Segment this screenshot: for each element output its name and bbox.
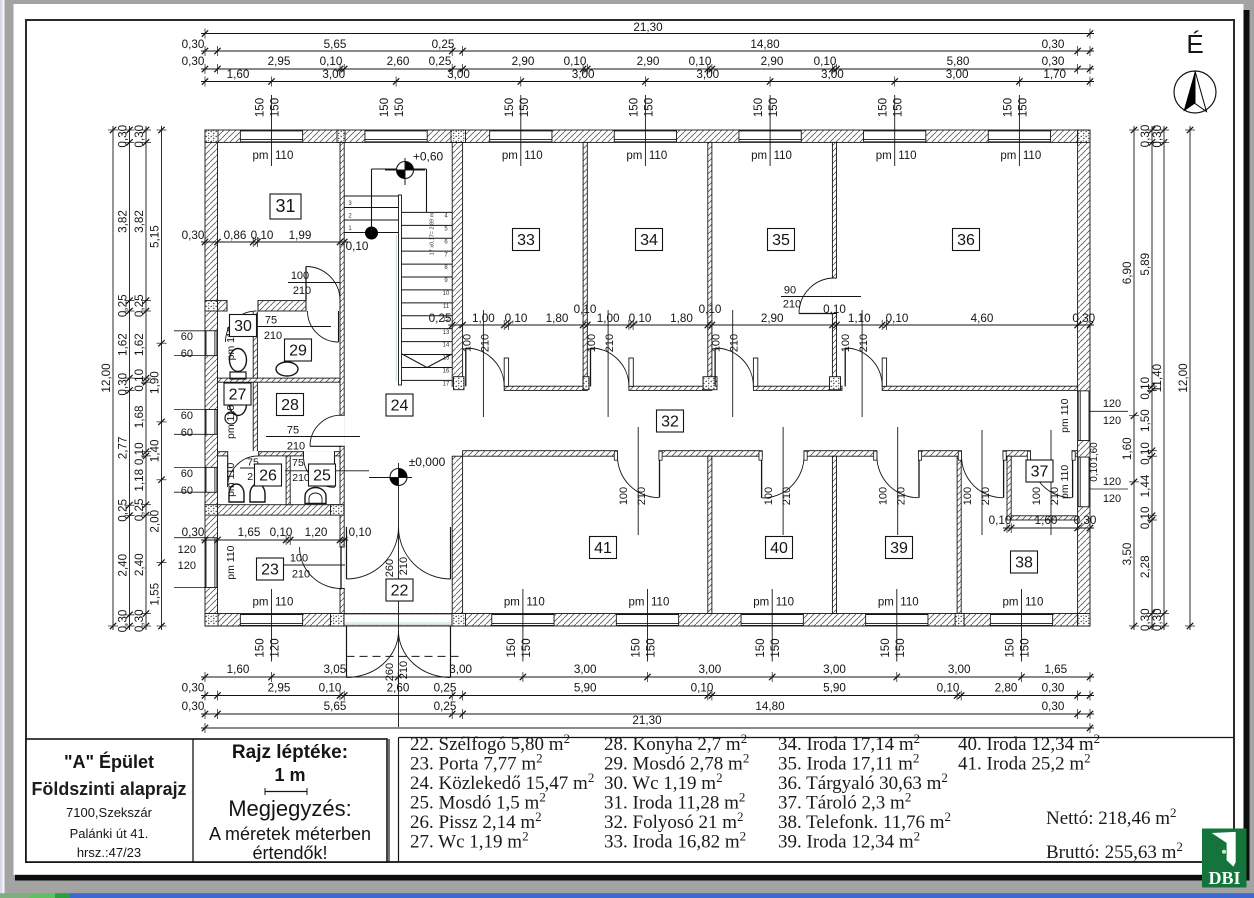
wall 33/34 bbox=[583, 142, 587, 386]
svg-text:110: 110 bbox=[651, 597, 669, 609]
svg-text:210: 210 bbox=[781, 487, 793, 505]
svg-text:150: 150 bbox=[768, 98, 780, 117]
svg-text:12,00: 12,00 bbox=[1177, 363, 1190, 393]
svg-text:110: 110 bbox=[776, 597, 794, 609]
svg-text:1,65: 1,65 bbox=[238, 526, 261, 539]
svg-text:1,50: 1,50 bbox=[1139, 409, 1152, 432]
svg-text:0,10: 0,10 bbox=[937, 682, 960, 695]
svg-text:1,00: 1,00 bbox=[597, 312, 620, 325]
svg-text:0,30: 0,30 bbox=[1151, 608, 1164, 631]
svg-text:32. Folyosó 21 m2: 32. Folyosó 21 m2 bbox=[604, 809, 744, 833]
svg-text:24: 24 bbox=[391, 398, 409, 415]
door witness lines upper rooms bbox=[482, 310, 484, 417]
svg-text:100: 100 bbox=[461, 334, 473, 352]
window top wall bbox=[365, 131, 427, 142]
door room 30 bbox=[226, 311, 257, 342]
svg-text:3,00: 3,00 bbox=[699, 663, 722, 676]
svg-text:0,10: 0,10 bbox=[564, 55, 587, 68]
dim bottom row4 total bbox=[201, 714, 1094, 733]
120/120 labels room 23 window bbox=[174, 538, 206, 588]
svg-text:40. Iroda 12,34 m2: 40. Iroda 12,34 m2 bbox=[958, 731, 1100, 755]
svg-text:25: 25 bbox=[313, 468, 331, 485]
svg-text:34: 34 bbox=[640, 232, 658, 249]
svg-text:pm 110: pm 110 bbox=[225, 545, 237, 579]
window top wall bbox=[739, 131, 801, 142]
svg-text:100: 100 bbox=[878, 487, 890, 505]
svg-text:210: 210 bbox=[292, 569, 310, 581]
svg-text:11: 11 bbox=[443, 304, 450, 310]
page shadow bottom bbox=[15, 875, 1250, 881]
door room 31 bbox=[306, 267, 340, 301]
svg-text:0,10: 0,10 bbox=[320, 55, 343, 68]
pm110 labels top rooms bbox=[253, 95, 294, 166]
svg-text:31. Iroda 11,28 m2: 31. Iroda 11,28 m2 bbox=[604, 790, 745, 814]
dim row room 23 bbox=[182, 526, 372, 545]
svg-text:75: 75 bbox=[265, 315, 277, 327]
window top wall bbox=[490, 131, 552, 142]
basin room 25 bbox=[305, 488, 326, 504]
svg-text:150: 150 bbox=[1005, 638, 1017, 657]
svg-text:3,00: 3,00 bbox=[696, 68, 719, 81]
svg-text:33: 33 bbox=[517, 232, 535, 249]
door room 23 bbox=[300, 547, 342, 589]
double door entrance outer bbox=[347, 626, 451, 678]
svg-text:5,80: 5,80 bbox=[947, 55, 970, 68]
svg-text:120: 120 bbox=[1103, 493, 1121, 505]
svg-text:3,00: 3,00 bbox=[447, 68, 470, 81]
svg-text:1,99: 1,99 bbox=[289, 229, 312, 242]
svg-text:120: 120 bbox=[178, 544, 196, 556]
svg-text:1,65: 1,65 bbox=[1044, 663, 1067, 676]
left scrollbar strips bbox=[0, 0, 3, 898]
svg-text:32: 32 bbox=[661, 414, 679, 431]
scale bar bbox=[265, 788, 307, 795]
svg-text:150: 150 bbox=[753, 98, 765, 117]
svg-text:2,90: 2,90 bbox=[512, 55, 535, 68]
dim right col2 bbox=[1139, 124, 1157, 631]
svg-text:150: 150 bbox=[895, 638, 907, 657]
svg-text:1,62: 1,62 bbox=[133, 333, 146, 356]
svg-text:260: 260 bbox=[384, 559, 396, 577]
svg-text:"A" Épület: "A" Épület bbox=[64, 751, 154, 772]
svg-text:28: 28 bbox=[281, 397, 299, 414]
dim row rooms 33-36 bbox=[429, 303, 1096, 330]
svg-text:60: 60 bbox=[181, 427, 193, 439]
stair left flight steps 1-3 bbox=[344, 207, 398, 209]
60/60 labels left wall windows bbox=[174, 331, 206, 360]
svg-text:150: 150 bbox=[770, 638, 782, 657]
DBI logo bbox=[1202, 829, 1247, 889]
svg-text:0,30: 0,30 bbox=[182, 38, 205, 51]
svg-text:150: 150 bbox=[643, 98, 655, 117]
svg-text:210: 210 bbox=[896, 487, 908, 505]
svg-text:10: 10 bbox=[443, 291, 450, 297]
svg-text:pm: pm bbox=[878, 597, 894, 609]
svg-text:0,10: 0,10 bbox=[349, 526, 372, 539]
svg-text:150: 150 bbox=[504, 98, 516, 117]
svg-text:210: 210 bbox=[729, 334, 741, 352]
column top-left corner bbox=[205, 130, 218, 142]
svg-text:35: 35 bbox=[772, 232, 790, 249]
svg-text:1,60: 1,60 bbox=[1121, 437, 1134, 460]
svg-text:2,40: 2,40 bbox=[133, 553, 146, 576]
door room 38 bbox=[958, 451, 1006, 498]
stair walking line bbox=[365, 227, 378, 240]
150/150 labels top bbox=[255, 98, 282, 117]
svg-text:39. Iroda 12,34 m2: 39. Iroda 12,34 m2 bbox=[778, 829, 920, 853]
svg-text:0,25: 0,25 bbox=[432, 38, 455, 51]
svg-text:pm: pm bbox=[1000, 150, 1016, 162]
svg-text:100: 100 bbox=[586, 334, 598, 352]
door witness lines lower rooms bbox=[637, 427, 639, 535]
svg-text:1,80: 1,80 bbox=[546, 312, 569, 325]
svg-text:260: 260 bbox=[384, 663, 396, 681]
svg-text:pm: pm bbox=[626, 150, 642, 162]
room 34 label bbox=[636, 229, 663, 251]
svg-text:0,25: 0,25 bbox=[133, 498, 146, 521]
svg-text:14,80: 14,80 bbox=[755, 700, 785, 713]
svg-text:pm 110: pm 110 bbox=[225, 463, 237, 497]
svg-text:110: 110 bbox=[1023, 150, 1041, 162]
svg-text:0,30: 0,30 bbox=[117, 124, 130, 147]
svg-text:0,25: 0,25 bbox=[117, 294, 130, 317]
stair right flight steps 4-17 bbox=[402, 211, 453, 213]
svg-text:100: 100 bbox=[618, 487, 630, 505]
svg-text:0,25: 0,25 bbox=[133, 294, 146, 317]
window bottom wall bbox=[616, 614, 678, 625]
urinals room 26 bbox=[229, 484, 244, 502]
svg-text:1,62: 1,62 bbox=[117, 333, 130, 356]
svg-text:150: 150 bbox=[270, 98, 282, 117]
svg-text:120: 120 bbox=[1103, 476, 1121, 488]
svg-text:2,28: 2,28 bbox=[1139, 555, 1152, 578]
svg-text:37: 37 bbox=[1031, 464, 1049, 481]
column entrance right bbox=[452, 614, 466, 627]
svg-text:60: 60 bbox=[181, 410, 193, 422]
svg-text:17 x0,17= 2,89 m: 17 x0,17= 2,89 m bbox=[430, 212, 436, 255]
svg-text:120: 120 bbox=[178, 560, 196, 572]
svg-text:pm: pm bbox=[504, 597, 520, 609]
svg-text:értendők!: értendők! bbox=[252, 843, 327, 863]
dim total top 21,30 bbox=[201, 21, 1094, 39]
svg-text:150: 150 bbox=[646, 638, 658, 657]
svg-text:5,89: 5,89 bbox=[1139, 253, 1152, 276]
door room 33 bbox=[466, 348, 509, 386]
svg-text:13: 13 bbox=[443, 330, 450, 336]
svg-text:75: 75 bbox=[292, 457, 304, 469]
svg-text:110: 110 bbox=[774, 150, 792, 162]
svg-text:3,00: 3,00 bbox=[821, 68, 844, 81]
svg-text:0,30: 0,30 bbox=[133, 124, 146, 147]
dim bottom row2 bbox=[182, 682, 1094, 701]
window top wall bbox=[240, 131, 302, 142]
svg-text:0,10: 0,10 bbox=[505, 312, 528, 325]
svg-text:38: 38 bbox=[1015, 555, 1033, 572]
window right wall bbox=[1078, 391, 1089, 441]
svg-text:90: 90 bbox=[784, 284, 796, 296]
outside landing dashed line bbox=[347, 655, 460, 657]
svg-text:210: 210 bbox=[293, 285, 311, 297]
wall room31/24 vertical bbox=[340, 142, 344, 613]
svg-text:21,30: 21,30 bbox=[632, 714, 662, 727]
svg-text:150: 150 bbox=[1017, 98, 1029, 117]
svg-text:0,30: 0,30 bbox=[117, 609, 130, 632]
column entrance left bbox=[331, 614, 345, 627]
title block box bbox=[26, 739, 387, 862]
svg-text:pm: pm bbox=[629, 597, 645, 609]
svg-text:0,10: 0,10 bbox=[699, 303, 722, 316]
svg-text:3,82: 3,82 bbox=[133, 210, 146, 233]
svg-text:0,30: 0,30 bbox=[1042, 682, 1065, 695]
svg-text:2,80: 2,80 bbox=[995, 682, 1018, 695]
dim right col3 bbox=[1151, 124, 1169, 631]
dim top row4 window spacing bbox=[201, 68, 1094, 87]
room 29 label bbox=[285, 339, 312, 361]
dim right col4 bbox=[1177, 126, 1195, 630]
basin room 29 bbox=[276, 362, 298, 376]
column top-right corner bbox=[1078, 130, 1090, 142]
svg-text:34. Iroda 17,14 m2: 34. Iroda 17,14 m2 bbox=[778, 731, 920, 755]
svg-text:6,90: 6,90 bbox=[1121, 261, 1134, 284]
svg-text:210: 210 bbox=[479, 334, 491, 352]
entrance opening bbox=[344, 614, 452, 625]
window bottom wall bbox=[990, 614, 1052, 625]
svg-text:110: 110 bbox=[275, 597, 293, 609]
svg-text:1,00: 1,00 bbox=[472, 312, 495, 325]
dim right col1 bbox=[1121, 126, 1139, 630]
svg-text:210: 210 bbox=[604, 334, 616, 352]
svg-text:30. Wc 1,19 m2: 30. Wc 1,19 m2 bbox=[604, 770, 723, 794]
column bottom wall 39/38 bbox=[955, 614, 964, 627]
entrance cyan threshold bbox=[345, 622, 456, 624]
svg-text:110: 110 bbox=[1025, 597, 1043, 609]
svg-text:Földszinti alaprajz: Földszinti alaprajz bbox=[32, 779, 187, 799]
svg-text:0,25: 0,25 bbox=[429, 312, 452, 325]
svg-text:3,50: 3,50 bbox=[1121, 542, 1134, 565]
svg-text:2,90: 2,90 bbox=[761, 312, 784, 325]
svg-text:31: 31 bbox=[275, 196, 295, 216]
svg-text:150: 150 bbox=[878, 98, 890, 117]
svg-text:2,60: 2,60 bbox=[387, 55, 410, 68]
room 28 label bbox=[277, 394, 304, 416]
wall 41/40 bbox=[708, 456, 712, 613]
svg-text:0,10: 0,10 bbox=[346, 240, 369, 253]
svg-text:26: 26 bbox=[259, 468, 277, 485]
svg-text:Nettó: 218,46 m2: Nettó: 218,46 m2 bbox=[1046, 805, 1177, 829]
wall 27/28 vertical bbox=[253, 382, 257, 452]
svg-text:1,55: 1,55 bbox=[149, 582, 162, 605]
exterior wall right bbox=[1078, 130, 1090, 626]
svg-text:0,30: 0,30 bbox=[117, 372, 130, 395]
svg-text:14,80: 14,80 bbox=[750, 38, 780, 51]
entrance axis witness line bbox=[398, 463, 400, 727]
svg-text:41. Iroda 25,2 m2: 41. Iroda 25,2 m2 bbox=[958, 751, 1091, 775]
svg-text:4,60: 4,60 bbox=[971, 312, 994, 325]
svg-text:150: 150 bbox=[519, 98, 531, 117]
svg-text:7100,Szekszár: 7100,Szekszár bbox=[66, 805, 153, 820]
door room 35 bbox=[715, 348, 758, 386]
svg-text:27: 27 bbox=[229, 387, 247, 404]
svg-text:110: 110 bbox=[275, 150, 293, 162]
svg-text:0,10: 0,10 bbox=[823, 303, 846, 316]
window top wall bbox=[614, 131, 676, 142]
svg-text:0,10: 0,10 bbox=[1139, 442, 1152, 465]
svg-text:110: 110 bbox=[524, 150, 542, 162]
svg-text:Bruttó: 255,63 m2: Bruttó: 255,63 m2 bbox=[1046, 839, 1183, 863]
svg-text:±0,000: ±0,000 bbox=[409, 455, 446, 469]
column top wall at stairwell bbox=[451, 130, 466, 142]
svg-text:0,10: 0,10 bbox=[814, 55, 837, 68]
svg-text:pm: pm bbox=[502, 150, 518, 162]
column bottom-left corner bbox=[205, 614, 218, 627]
door opening room 28 bbox=[339, 415, 344, 446]
door opening room 30 bbox=[227, 300, 258, 312]
svg-text:110: 110 bbox=[898, 150, 916, 162]
wall 39/38 bbox=[957, 456, 961, 613]
window left wall bbox=[206, 331, 217, 356]
svg-text:0,25: 0,25 bbox=[434, 700, 457, 713]
svg-text:1,40: 1,40 bbox=[149, 439, 162, 462]
room 27 label bbox=[224, 383, 251, 405]
wall 27-28 / 26-25 (0.10) bbox=[218, 452, 341, 456]
room 33 label bbox=[513, 229, 540, 251]
svg-text:pm: pm bbox=[253, 150, 269, 162]
svg-text:29: 29 bbox=[289, 343, 307, 360]
svg-text:3,00: 3,00 bbox=[449, 663, 472, 676]
svg-text:100: 100 bbox=[763, 487, 775, 505]
room 38 label bbox=[1011, 551, 1038, 573]
door room 37 bbox=[1027, 451, 1075, 498]
window bottom wall bbox=[492, 614, 554, 625]
svg-text:pm: pm bbox=[753, 597, 769, 609]
svg-text:3,00: 3,00 bbox=[946, 68, 969, 81]
room 26 label bbox=[255, 464, 282, 486]
stair center spine bbox=[399, 195, 402, 385]
120/120 labels room 37 window bbox=[1090, 476, 1128, 505]
svg-text:1,68: 1,68 bbox=[133, 406, 146, 429]
door room 40 bbox=[759, 451, 807, 498]
window left wall bbox=[206, 538, 217, 588]
dim left col3 bbox=[133, 124, 151, 632]
svg-text:0,10: 0,10 bbox=[251, 229, 274, 242]
svg-text:23: 23 bbox=[261, 562, 279, 579]
wall 30/27 (0.10) bbox=[218, 378, 341, 382]
svg-text:100: 100 bbox=[1031, 487, 1043, 505]
room 31 label bbox=[270, 194, 301, 219]
svg-text:37. Tároló 2,3 m2: 37. Tároló 2,3 m2 bbox=[778, 790, 911, 814]
door opening rooms 35/36 bbox=[832, 278, 837, 314]
svg-text:210: 210 bbox=[398, 557, 410, 575]
svg-text:100: 100 bbox=[962, 487, 974, 505]
svg-text:0,10: 0,10 bbox=[319, 682, 342, 695]
svg-text:40: 40 bbox=[770, 540, 788, 557]
svg-text:29. Mosdó 2,78 m2: 29. Mosdó 2,78 m2 bbox=[604, 751, 749, 775]
svg-text:150: 150 bbox=[1020, 638, 1032, 657]
svg-text:DBI: DBI bbox=[1208, 868, 1240, 888]
svg-text:0,30: 0,30 bbox=[1042, 700, 1065, 713]
svg-text:3,00: 3,00 bbox=[948, 663, 971, 676]
svg-text:0,10: 0,10 bbox=[989, 514, 1012, 527]
svg-text:1,60: 1,60 bbox=[227, 68, 250, 81]
elevation marker ±0,000 bbox=[390, 469, 407, 486]
svg-text:+0,60: +0,60 bbox=[413, 150, 444, 164]
svg-text:100: 100 bbox=[290, 553, 308, 565]
svg-text:0,10: 0,10 bbox=[629, 312, 652, 325]
svg-text:33. Iroda 16,82 m2: 33. Iroda 16,82 m2 bbox=[604, 829, 746, 853]
room 32 label bbox=[657, 410, 684, 432]
svg-text:41: 41 bbox=[594, 540, 612, 557]
svg-text:0,86: 0,86 bbox=[224, 229, 247, 242]
svg-text:150: 150 bbox=[506, 638, 518, 657]
svg-text:110: 110 bbox=[526, 597, 544, 609]
exterior wall left bbox=[205, 130, 218, 626]
svg-text:pm 110: pm 110 bbox=[225, 405, 237, 439]
svg-text:17: 17 bbox=[443, 381, 450, 387]
door room 35/36 (90) bbox=[799, 278, 835, 314]
dim row room 31 bbox=[182, 229, 369, 253]
legend divider double line bbox=[388, 739, 390, 862]
window top wall bbox=[864, 131, 926, 142]
svg-text:23. Porta 7,77 m2: 23. Porta 7,77 m2 bbox=[410, 751, 543, 775]
door room 28 bbox=[310, 415, 341, 446]
room 25 label bbox=[309, 464, 336, 486]
door room 34 bbox=[591, 348, 634, 386]
svg-text:12,00: 12,00 bbox=[100, 363, 113, 393]
svg-text:2,90: 2,90 bbox=[761, 55, 784, 68]
svg-text:25. Mosdó 1,5 m2: 25. Mosdó 1,5 m2 bbox=[410, 790, 546, 814]
svg-text:0,10: 0,10 bbox=[270, 526, 293, 539]
dim bottom row1 window spacing bbox=[201, 663, 1094, 682]
svg-text:3,05: 3,05 bbox=[324, 663, 347, 676]
stair cut arrow V bbox=[402, 354, 427, 368]
door room 41 bbox=[614, 451, 662, 497]
svg-text:60: 60 bbox=[181, 485, 193, 497]
stair: landing edge bbox=[344, 195, 398, 197]
svg-text:14: 14 bbox=[443, 343, 450, 349]
toilet room 30 bbox=[230, 349, 247, 380]
svg-text:120: 120 bbox=[1103, 398, 1121, 410]
window top wall bbox=[988, 131, 1050, 142]
north compass bbox=[1174, 71, 1216, 113]
stair cyan section line bbox=[395, 235, 397, 381]
page shadow right bbox=[1244, 10, 1250, 881]
wall 34/35 bbox=[708, 142, 712, 386]
svg-text:75: 75 bbox=[287, 425, 299, 437]
elevation marker +0,60 bbox=[397, 162, 414, 179]
room 22 label bbox=[386, 579, 413, 601]
svg-text:27. Wc 1,19 m2: 27. Wc 1,19 m2 bbox=[410, 829, 529, 853]
svg-text:150: 150 bbox=[628, 98, 640, 117]
svg-text:60: 60 bbox=[181, 348, 193, 360]
svg-text:150: 150 bbox=[755, 638, 767, 657]
dim top row2 bbox=[182, 38, 1094, 56]
pm110 labels bottom rooms bbox=[253, 589, 294, 662]
svg-text:0,30: 0,30 bbox=[1072, 312, 1095, 325]
svg-text:210: 210 bbox=[398, 661, 410, 679]
svg-text:210: 210 bbox=[980, 487, 992, 505]
svg-text:150: 150 bbox=[379, 98, 391, 117]
wall 26/25 vertical bbox=[286, 456, 290, 505]
room 30 label bbox=[230, 315, 257, 337]
column left wall at 26/23 bbox=[205, 505, 218, 515]
svg-text:210: 210 bbox=[858, 334, 870, 352]
svg-text:3,00: 3,00 bbox=[574, 663, 597, 676]
svg-text:3,00: 3,00 bbox=[322, 68, 345, 81]
svg-text:1,10: 1,10 bbox=[848, 312, 871, 325]
room 37 label bbox=[1026, 460, 1053, 482]
dim left col4 bbox=[149, 126, 167, 630]
svg-text:0,30: 0,30 bbox=[182, 55, 205, 68]
